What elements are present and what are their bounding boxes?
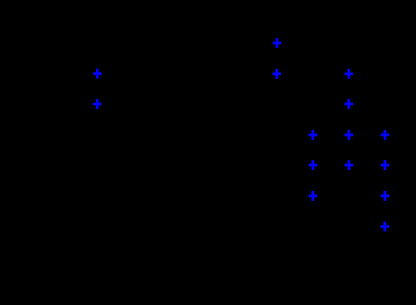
data point marker 7	[309, 130, 318, 140]
data point marker 15	[380, 222, 389, 232]
data point marker 12	[381, 160, 390, 170]
data point marker 13	[309, 191, 318, 201]
data point marker 5	[345, 69, 354, 79]
data point marker 1	[93, 69, 102, 79]
data point marker 9	[381, 130, 390, 140]
data point marker 2	[93, 99, 102, 109]
data point marker 4	[272, 69, 281, 79]
data point marker 11	[345, 160, 354, 170]
data point marker 8	[345, 130, 354, 140]
data point marker 3	[273, 38, 282, 48]
data point marker 14	[381, 191, 390, 201]
data point marker 10	[309, 160, 318, 170]
data point marker 6	[344, 99, 353, 109]
